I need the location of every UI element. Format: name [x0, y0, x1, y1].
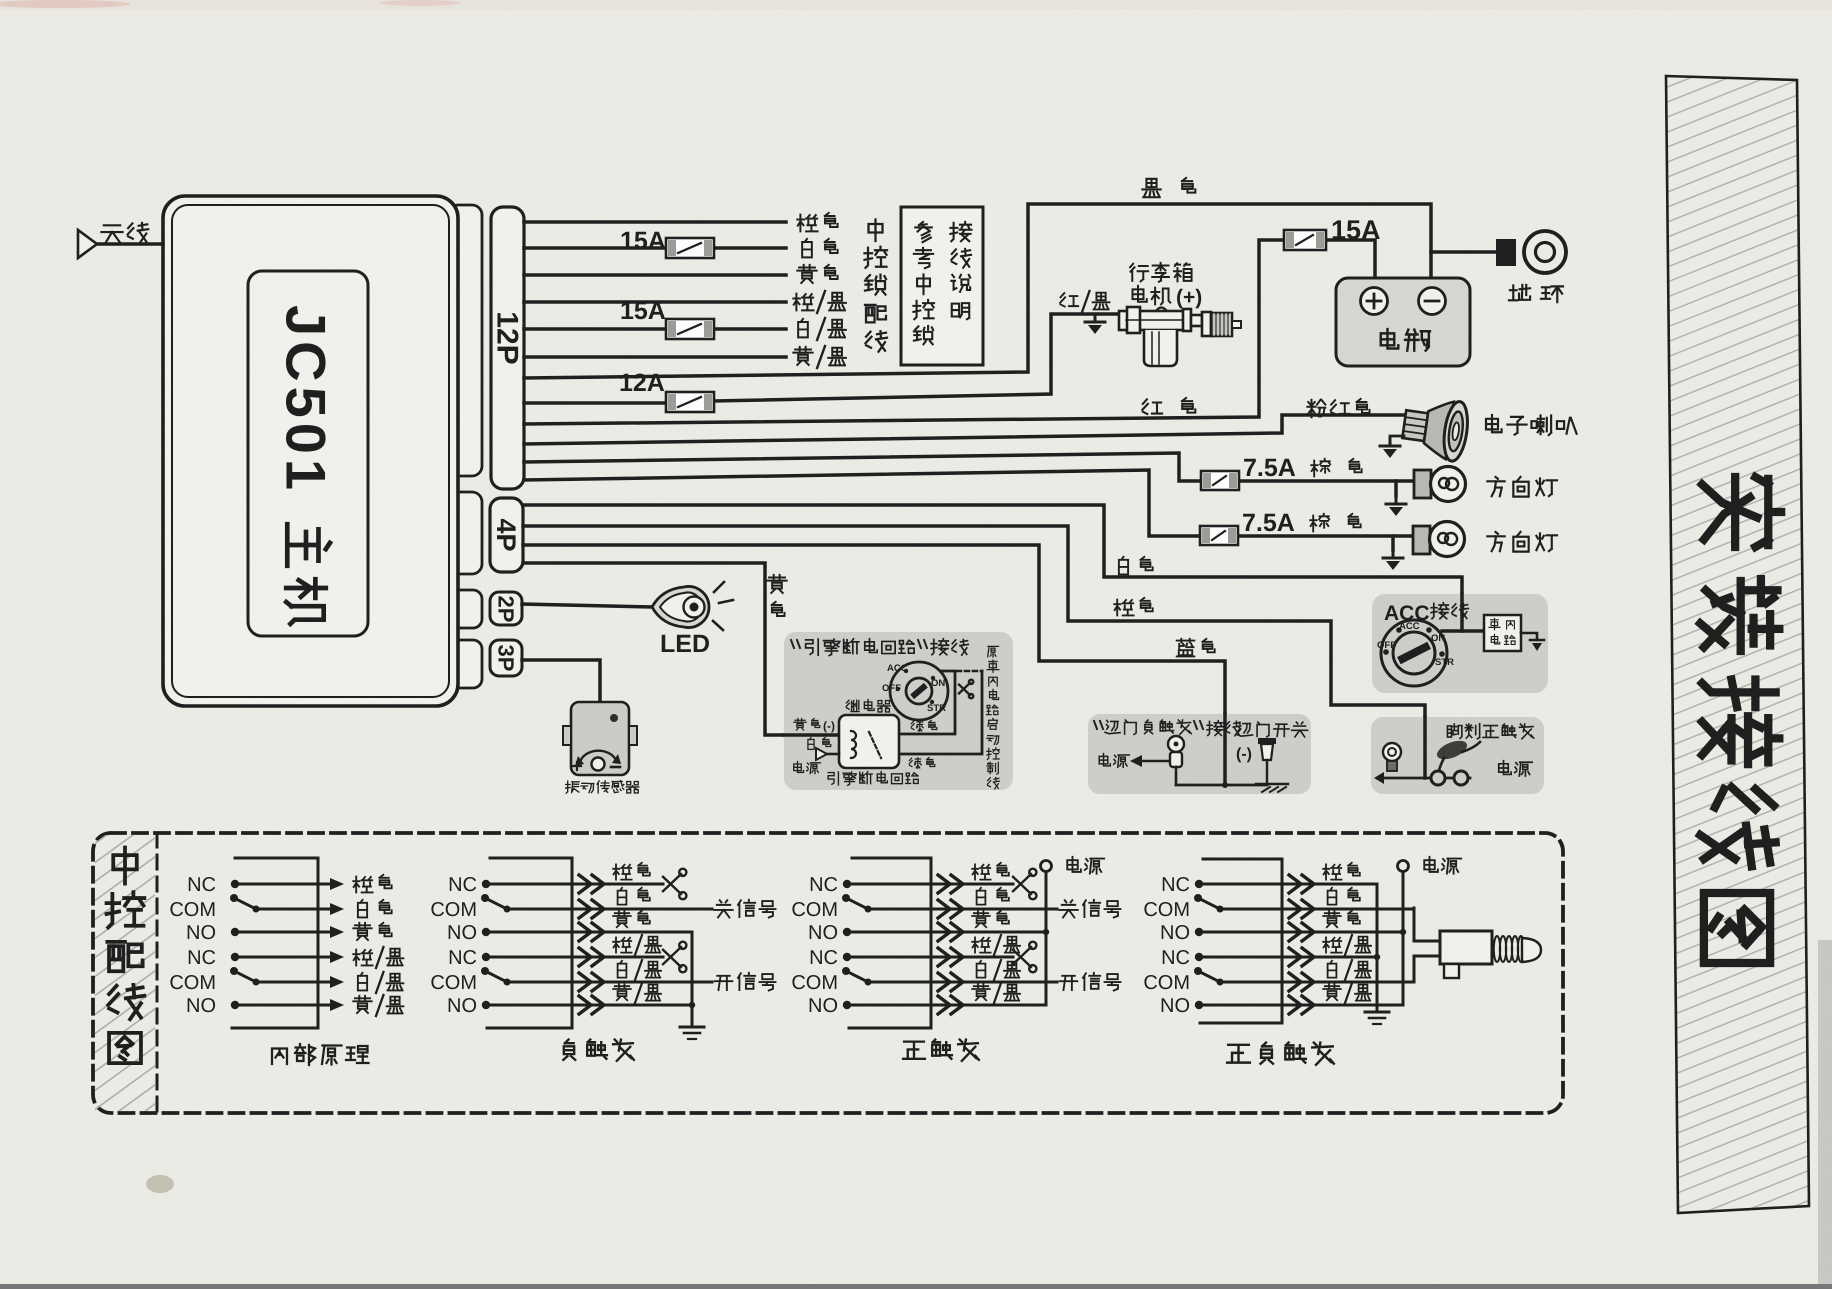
label 黑色: [1142, 179, 1160, 197]
label 橙色: [797, 215, 817, 232]
wire S4 row 5: [1220, 981, 1414, 984]
green wire bottom: [899, 671, 982, 754]
wire S4 row 1: [1199, 883, 1377, 886]
turn lamp 2 方向灯: [1413, 526, 1430, 554]
label 橙/黑 S4: [1323, 937, 1341, 952]
door pin sensor: [1168, 736, 1184, 752]
label 橙/黑 S2: [613, 937, 631, 952]
power terminal S3 电源: [1041, 861, 1052, 872]
ground ring 地环: [1496, 239, 1516, 266]
wire orange: [524, 220, 786, 224]
power terminal S4 电源: [1398, 861, 1409, 872]
connector 3P: [490, 640, 522, 676]
label 蓝色: [1177, 639, 1195, 657]
label 绿色 bottom: [909, 758, 921, 768]
central lock wiring panel (dashed): [93, 833, 1563, 1113]
fuse 15A F1: [666, 238, 714, 258]
label 关信号 S2: [714, 900, 732, 917]
wire red battery: [524, 240, 1375, 424]
wire to ground: [1521, 633, 1537, 640]
ground horn: [1390, 436, 1404, 440]
wire yellow: [524, 273, 786, 277]
engine cut-off box: [784, 632, 1013, 790]
banner text 安装接线图: [1700, 477, 1781, 963]
label 开信号 S2: [715, 976, 733, 990]
actuator wires S4: [1414, 908, 1440, 982]
wire door circuit: [1176, 784, 1267, 787]
ground lamp 1: [1394, 481, 1398, 496]
wire S3 row 3: [847, 931, 1046, 934]
label 黄色 S4: [1323, 911, 1341, 927]
wire white: [524, 246, 786, 250]
scissors cut mark: [959, 680, 973, 699]
cut wire dashed: [957, 670, 982, 673]
wire S2 row 3: [486, 931, 692, 934]
wire S3 row 2: [868, 908, 1057, 911]
label 黄色 S2: [613, 911, 631, 927]
label 正负触发: [1227, 1045, 1250, 1063]
wire S3 row 1: [847, 883, 1013, 886]
wire S1 row 2: [256, 908, 330, 911]
ground wire S2: [691, 932, 694, 1027]
label 黄/黑 S4: [1323, 984, 1341, 1000]
ground lamp 2: [1391, 536, 1395, 550]
ground S4: [1365, 1012, 1389, 1024]
label 橙色 S1: [353, 877, 372, 893]
wire S2 row 6: [486, 1004, 692, 1007]
label 黄/黑 S2: [613, 984, 631, 1000]
wire 3P to shock sensor: [522, 660, 600, 702]
wire antenna to main unit: [97, 242, 163, 246]
ACC box: [1372, 594, 1548, 693]
turn lamp 1 方向灯: [1414, 470, 1431, 498]
wire white ACC: [523, 505, 1462, 629]
wire S3 row 6: [847, 1004, 1046, 1007]
wire S3 row 5: [868, 981, 1057, 984]
ground wire S4: [1376, 884, 1379, 1012]
fuse 15A F4: [1284, 230, 1326, 250]
wire switch to car circuit: [1442, 629, 1484, 633]
main unit inner outline: [172, 205, 449, 697]
green wire top: [899, 671, 955, 734]
label 关信号 S3: [1059, 900, 1077, 917]
wire 2P to LED: [522, 604, 652, 607]
wire S4 row 6: [1199, 1004, 1403, 1007]
label 绿色 top: [911, 721, 923, 731]
label 橙/黑: [793, 294, 813, 311]
panel title 中控配线图: [113, 848, 137, 884]
horn 电子喇叭: [1400, 394, 1471, 462]
wire yellow/black: [524, 355, 786, 359]
connector 12P: [491, 207, 524, 489]
label 正触发: [903, 1042, 925, 1059]
label 粉红色: [1307, 400, 1325, 418]
trunk motor 行李箱电机: [1130, 264, 1148, 282]
relay 继电器: [846, 700, 859, 711]
switch block S3: [849, 858, 931, 1028]
main unit JC501 tabs: [448, 205, 482, 476]
label 电源 engine: [794, 762, 804, 773]
fuse 7.5A F5: [1201, 471, 1239, 490]
shock sensor 振动传感器: [571, 702, 629, 775]
wire S3 row 4: [847, 956, 1013, 959]
wire S1 row 4: [235, 956, 330, 959]
wire brown turn lamp 2: [524, 470, 1414, 536]
brake sensor icon: [1383, 743, 1401, 761]
label 橙/黑 S3: [972, 937, 990, 952]
ground ACC: [1530, 639, 1544, 642]
LED indicator: [652, 587, 709, 628]
main unit label panel: [248, 271, 368, 636]
wire S2 row 1: [486, 883, 663, 886]
wire pink siren: [524, 415, 1404, 444]
switch block S4: [1200, 859, 1282, 1023]
wire S1 row 3: [235, 931, 330, 934]
label 黄/黑 S3: [972, 984, 990, 1000]
label 白/黑: [798, 319, 808, 337]
connector 4P: [490, 498, 523, 572]
power wire S3: [1045, 871, 1048, 1005]
wire S4 row 2: [1220, 908, 1414, 911]
fuse 15A F2: [666, 319, 714, 339]
label 负触发: [563, 1040, 575, 1060]
wire orange brake: [523, 526, 1425, 778]
door trigger box 边门负触发: [1088, 714, 1311, 794]
ignition switch: [1381, 620, 1447, 686]
vertical note 原车内电路启动控制线: [988, 646, 999, 657]
label 电子喇叭: [1486, 415, 1502, 432]
brake trigger box 脚刹正触发: [1371, 717, 1544, 794]
power wire S4: [1402, 871, 1405, 1005]
ground S2: [680, 1027, 704, 1039]
wire S4 row 3: [1199, 931, 1403, 934]
label 开信号 S3: [1060, 976, 1078, 990]
ground door switch: [1256, 783, 1288, 785]
label 白/黑 S4: [1328, 961, 1337, 978]
wire red/black trunk: [524, 314, 1118, 403]
fuse 12A F3: [666, 392, 714, 412]
wire S2 row 5: [507, 981, 712, 984]
ground under trunk motor: [1085, 314, 1105, 334]
label 白/黑 S3: [977, 961, 986, 978]
label 棕色 lamp1: [1311, 459, 1330, 477]
wire white/black: [524, 327, 786, 331]
wire black: [524, 204, 1431, 378]
label 白色 ACC: [1119, 557, 1128, 575]
label 白色 S3: [977, 888, 986, 905]
wire S1 row 6: [235, 1004, 330, 1007]
switch block S2: [487, 858, 572, 1028]
label 黄色(-): [794, 719, 806, 730]
door lock actuator: [1440, 931, 1492, 964]
label 黄/黑 S1: [353, 996, 371, 1013]
wire to ground ring: [1431, 250, 1496, 254]
label 电源 door: [1099, 754, 1110, 766]
wire S4 row 4: [1199, 956, 1377, 959]
pedal icon: [1384, 777, 1470, 780]
power arrow left door: [1130, 755, 1142, 767]
wire orange/black: [524, 300, 786, 304]
label 橙/黑 S1: [353, 950, 372, 966]
label 红/黑: [1060, 293, 1078, 306]
wire S1 row 1: [235, 883, 330, 886]
fuse 7.5A F6: [1200, 526, 1238, 545]
label 黄色 S3: [972, 911, 990, 927]
scissors S2 r4: [663, 942, 686, 973]
label 橙色 S3: [972, 864, 990, 879]
label 白色 S2: [618, 888, 627, 905]
antenna 天线: [101, 225, 122, 242]
label 白/黑 S2: [618, 961, 627, 978]
label 白/黑 S1: [358, 973, 367, 991]
label 白色 S1: [358, 900, 367, 918]
label 橙色 S2: [613, 864, 631, 879]
scissors S2 r1: [663, 869, 686, 900]
label 橙色 S4: [1323, 864, 1341, 879]
label 中控锁配线: [869, 220, 883, 242]
label 引擎断电回路 bottom: [828, 772, 838, 785]
battery 电瓶: [1336, 278, 1470, 366]
label 橙色 brake: [1114, 600, 1133, 616]
label 黄色 vertical: [767, 575, 786, 593]
main unit JC501 outer box: [163, 196, 458, 706]
label 白色: [802, 239, 812, 257]
label 白色 white arrow: [808, 738, 814, 750]
connector 2P: [490, 592, 522, 625]
label 黄色 S1: [353, 923, 371, 940]
label 棕色 lamp2: [1310, 514, 1329, 532]
wire yellow engine cut: [523, 563, 841, 735]
label 黄/黑: [793, 347, 812, 365]
label 内部原理: [272, 1049, 287, 1065]
reference note box: [901, 207, 983, 365]
label 红色: [1142, 399, 1162, 414]
car interior circuit box 车内电路: [1484, 615, 1521, 651]
wire S2 row 4: [486, 956, 663, 959]
wire S2 row 2: [507, 908, 712, 911]
door switch icon: [1258, 738, 1276, 744]
label 电源 brake: [1499, 761, 1511, 775]
wire brown turn lamp 1: [524, 453, 1414, 481]
label 白色 S4: [1328, 888, 1337, 905]
scissors S3 r4: [1013, 942, 1036, 973]
power arrow left: [1374, 772, 1384, 784]
wire blue door: [523, 545, 1225, 785]
scissors S3 r1: [1013, 869, 1036, 900]
ignition switch engine box: [890, 662, 948, 720]
wire S1 row 5: [256, 981, 330, 984]
switch block S1: [232, 858, 318, 1028]
label 黄色: [797, 265, 816, 283]
